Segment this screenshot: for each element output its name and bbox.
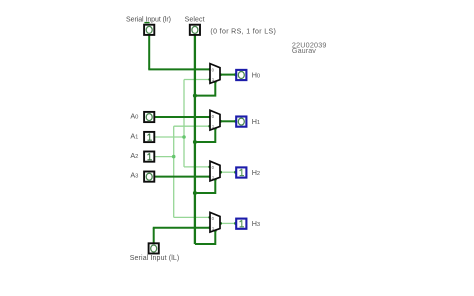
port dot MUX1 out [219, 73, 222, 76]
port dot MUX3 in0 [208, 166, 211, 169]
port dot MUX3 sel [214, 178, 217, 181]
wire A1 pin to vertical [155, 136, 184, 138]
port dot MUX2 in0 [208, 116, 211, 119]
pin body [236, 70, 246, 80]
output pin H3 [236, 219, 246, 229]
wire A2 vertical bus [173, 126, 175, 217]
pin body [236, 219, 246, 229]
pin value glyph [238, 118, 244, 125]
wire A1 to MUX1 input 1 [184, 79, 210, 81]
pin value glyph [146, 173, 152, 180]
wire MUX2 output to H1 [221, 120, 236, 122]
svg-text:Serial Input (lL): Serial Input (lL) [130, 255, 180, 262]
wire MUX4 output to H3 [221, 222, 236, 224]
pin body [144, 132, 154, 142]
port dot H2 [234, 171, 237, 174]
svg-text:(0 for RS, 1 for LS): (0 for RS, 1 for LS) [210, 29, 276, 36]
pin value glyph [148, 153, 152, 160]
port dot MUX4 in0 [208, 216, 211, 219]
input pin A0 [144, 112, 154, 122]
pin value glyph [146, 26, 152, 33]
port dot MUX1 sel [214, 81, 217, 84]
port dot H0 [234, 73, 237, 76]
output pin H2 [236, 167, 246, 177]
output pin H0 [236, 70, 246, 80]
wire MUX1 output to H0 [221, 74, 236, 76]
pin body [149, 243, 159, 253]
input pin A1 [144, 132, 154, 142]
label underline mark Serial Input (lr) [144, 22, 149, 23]
wire A1 to MUX3 input 0 [184, 166, 210, 168]
mux MUX2 [210, 110, 220, 130]
wire A2 pin to vertical [155, 156, 174, 158]
mux MUX3 body [210, 161, 220, 181]
input pin Select [190, 25, 200, 35]
wire serial input (lr) to MUX1 input 0 [148, 68, 209, 70]
svg-text:Serial Input (lr): Serial Input (lr) [126, 16, 171, 23]
pin body [236, 117, 246, 127]
wire A2 to MUX2 input 1 [174, 125, 210, 127]
wire serial input (lL) vertical [153, 228, 155, 243]
pin value glyph [148, 134, 152, 141]
input pin Serial Input (lr) [144, 25, 154, 35]
wire A0 to MUX2 input 0 [155, 116, 210, 118]
mux MUX4 [210, 212, 220, 232]
input pin Serial Input (lL) [149, 243, 159, 253]
port dot H3 [234, 222, 237, 225]
port dot H1 [234, 120, 237, 123]
port dot MUX2 sel [214, 127, 217, 130]
mux MUX1 body [210, 64, 220, 84]
junction select/MUX3 branch [193, 191, 197, 195]
port dot MUX4 sel [214, 229, 217, 232]
output pin H1 [236, 117, 246, 127]
wire select branch to MUX1 [195, 82, 215, 96]
pin value glyph [240, 220, 244, 227]
wire A1 vertical bus [183, 80, 185, 167]
port dot MUX2 in1 [208, 125, 211, 128]
junction A2 vertical/pin wire [172, 155, 176, 159]
pin body [236, 167, 246, 177]
port dot MUX2 out [219, 120, 222, 123]
pin value glyph [146, 114, 152, 121]
wire serial input (lr) vertical [148, 35, 150, 70]
pin value glyph [240, 169, 244, 176]
svg-text:Gaurav: Gaurav [292, 46, 316, 55]
port dot MUX3 out [219, 171, 222, 174]
wire A2 to MUX4 input 0 [174, 216, 210, 218]
port dot MUX3 in1 [208, 175, 211, 178]
pin value glyph [192, 26, 198, 33]
port dot MUX4 out [219, 222, 222, 225]
wire A3 to MUX3 input 1 [155, 176, 210, 178]
junction select/MUX2 branch [193, 140, 197, 144]
wire select branch to MUX2 [195, 128, 215, 142]
pin body [144, 112, 154, 122]
wire serial input (lL) to MUX4 input 1 [153, 227, 210, 229]
svg-text:Select: Select [185, 16, 205, 23]
mux MUX1 [210, 64, 220, 84]
mux MUX4 body [210, 212, 220, 232]
port dot MUX1 in1 [208, 78, 211, 81]
pin value glyph [238, 72, 244, 79]
port dot MUX4 in1 [208, 226, 211, 229]
pin body [144, 172, 154, 182]
junction select/MUX1 branch [193, 94, 197, 98]
input pin A3 [144, 172, 154, 182]
pin body [144, 152, 154, 162]
pin value glyph [151, 245, 157, 252]
wire MUX3 output to H2 [221, 171, 236, 173]
junction A1 vertical/pin wire [182, 135, 186, 139]
input pin A2 [144, 152, 154, 162]
mux MUX3 [210, 161, 220, 181]
port dot MUX1 in0 [208, 68, 211, 71]
mux MUX2 body [210, 110, 220, 130]
wire select branch to MUX3 [195, 179, 215, 193]
wire select branch to MUX4 [195, 230, 215, 244]
pin body [144, 25, 154, 35]
